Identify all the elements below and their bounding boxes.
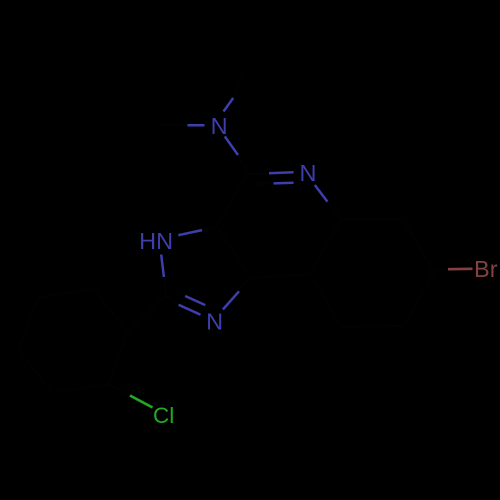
wire methyl C upper dark half — [233, 73, 243, 98]
ring B remaining dark edges — [250, 274, 310, 278]
wire N(Me2)-CH3 upper blue half — [224, 98, 234, 112]
imidazole dark stubs — [164, 277, 166, 295]
wire C-Cl green half — [130, 396, 153, 408]
wire N1H-C9b blue half — [178, 230, 202, 235]
svg-text:N: N — [300, 160, 317, 186]
wire C7-Br dark half — [434, 269, 448, 271]
wire N(Me2)-CH3 left blue half — [188, 124, 205, 127]
chlorophenyl ring — [108, 332, 128, 384]
svg-text:N: N — [206, 309, 223, 335]
wire N(Me2)-C4 blue half — [225, 136, 238, 155]
wire N1H-C2 blue half — [161, 255, 164, 278]
dark carbon skeleton (nearly invisible on black) — [18, 73, 448, 396]
wire N(dimethyl) to C4 dark half — [238, 155, 248, 173]
wire C4=N5 inner dark half — [250, 182, 274, 185]
wire C2=N3 main blue half — [179, 305, 201, 315]
wire C4=N5 inner blue half — [274, 182, 294, 185]
svg-text:Br: Br — [474, 256, 498, 282]
wire C4=N5 main blue half — [269, 171, 294, 174]
wire N5-C5a dark half — [328, 202, 342, 219]
wire C-Br dark red half — [448, 267, 473, 270]
benzo ring C — [341, 218, 403, 220]
wire C4 to N5 dark half main — [247, 173, 269, 174]
wire C-Cl dark half — [108, 384, 130, 396]
wire C2 to chlorophenyl ipso — [128, 295, 166, 332]
blue bonds of nitrogen atoms — [161, 98, 327, 315]
wire C2=N3 inner blue half — [185, 296, 205, 305]
svg-text:Cl: Cl — [153, 403, 174, 428]
svg-text:HN: HN — [139, 228, 173, 254]
wire methyl C left dark half — [158, 124, 188, 126]
wire N3-C3a blue half — [223, 291, 239, 309]
svg-text:N: N — [211, 113, 228, 139]
wire N5-C5a blue half — [315, 185, 328, 202]
